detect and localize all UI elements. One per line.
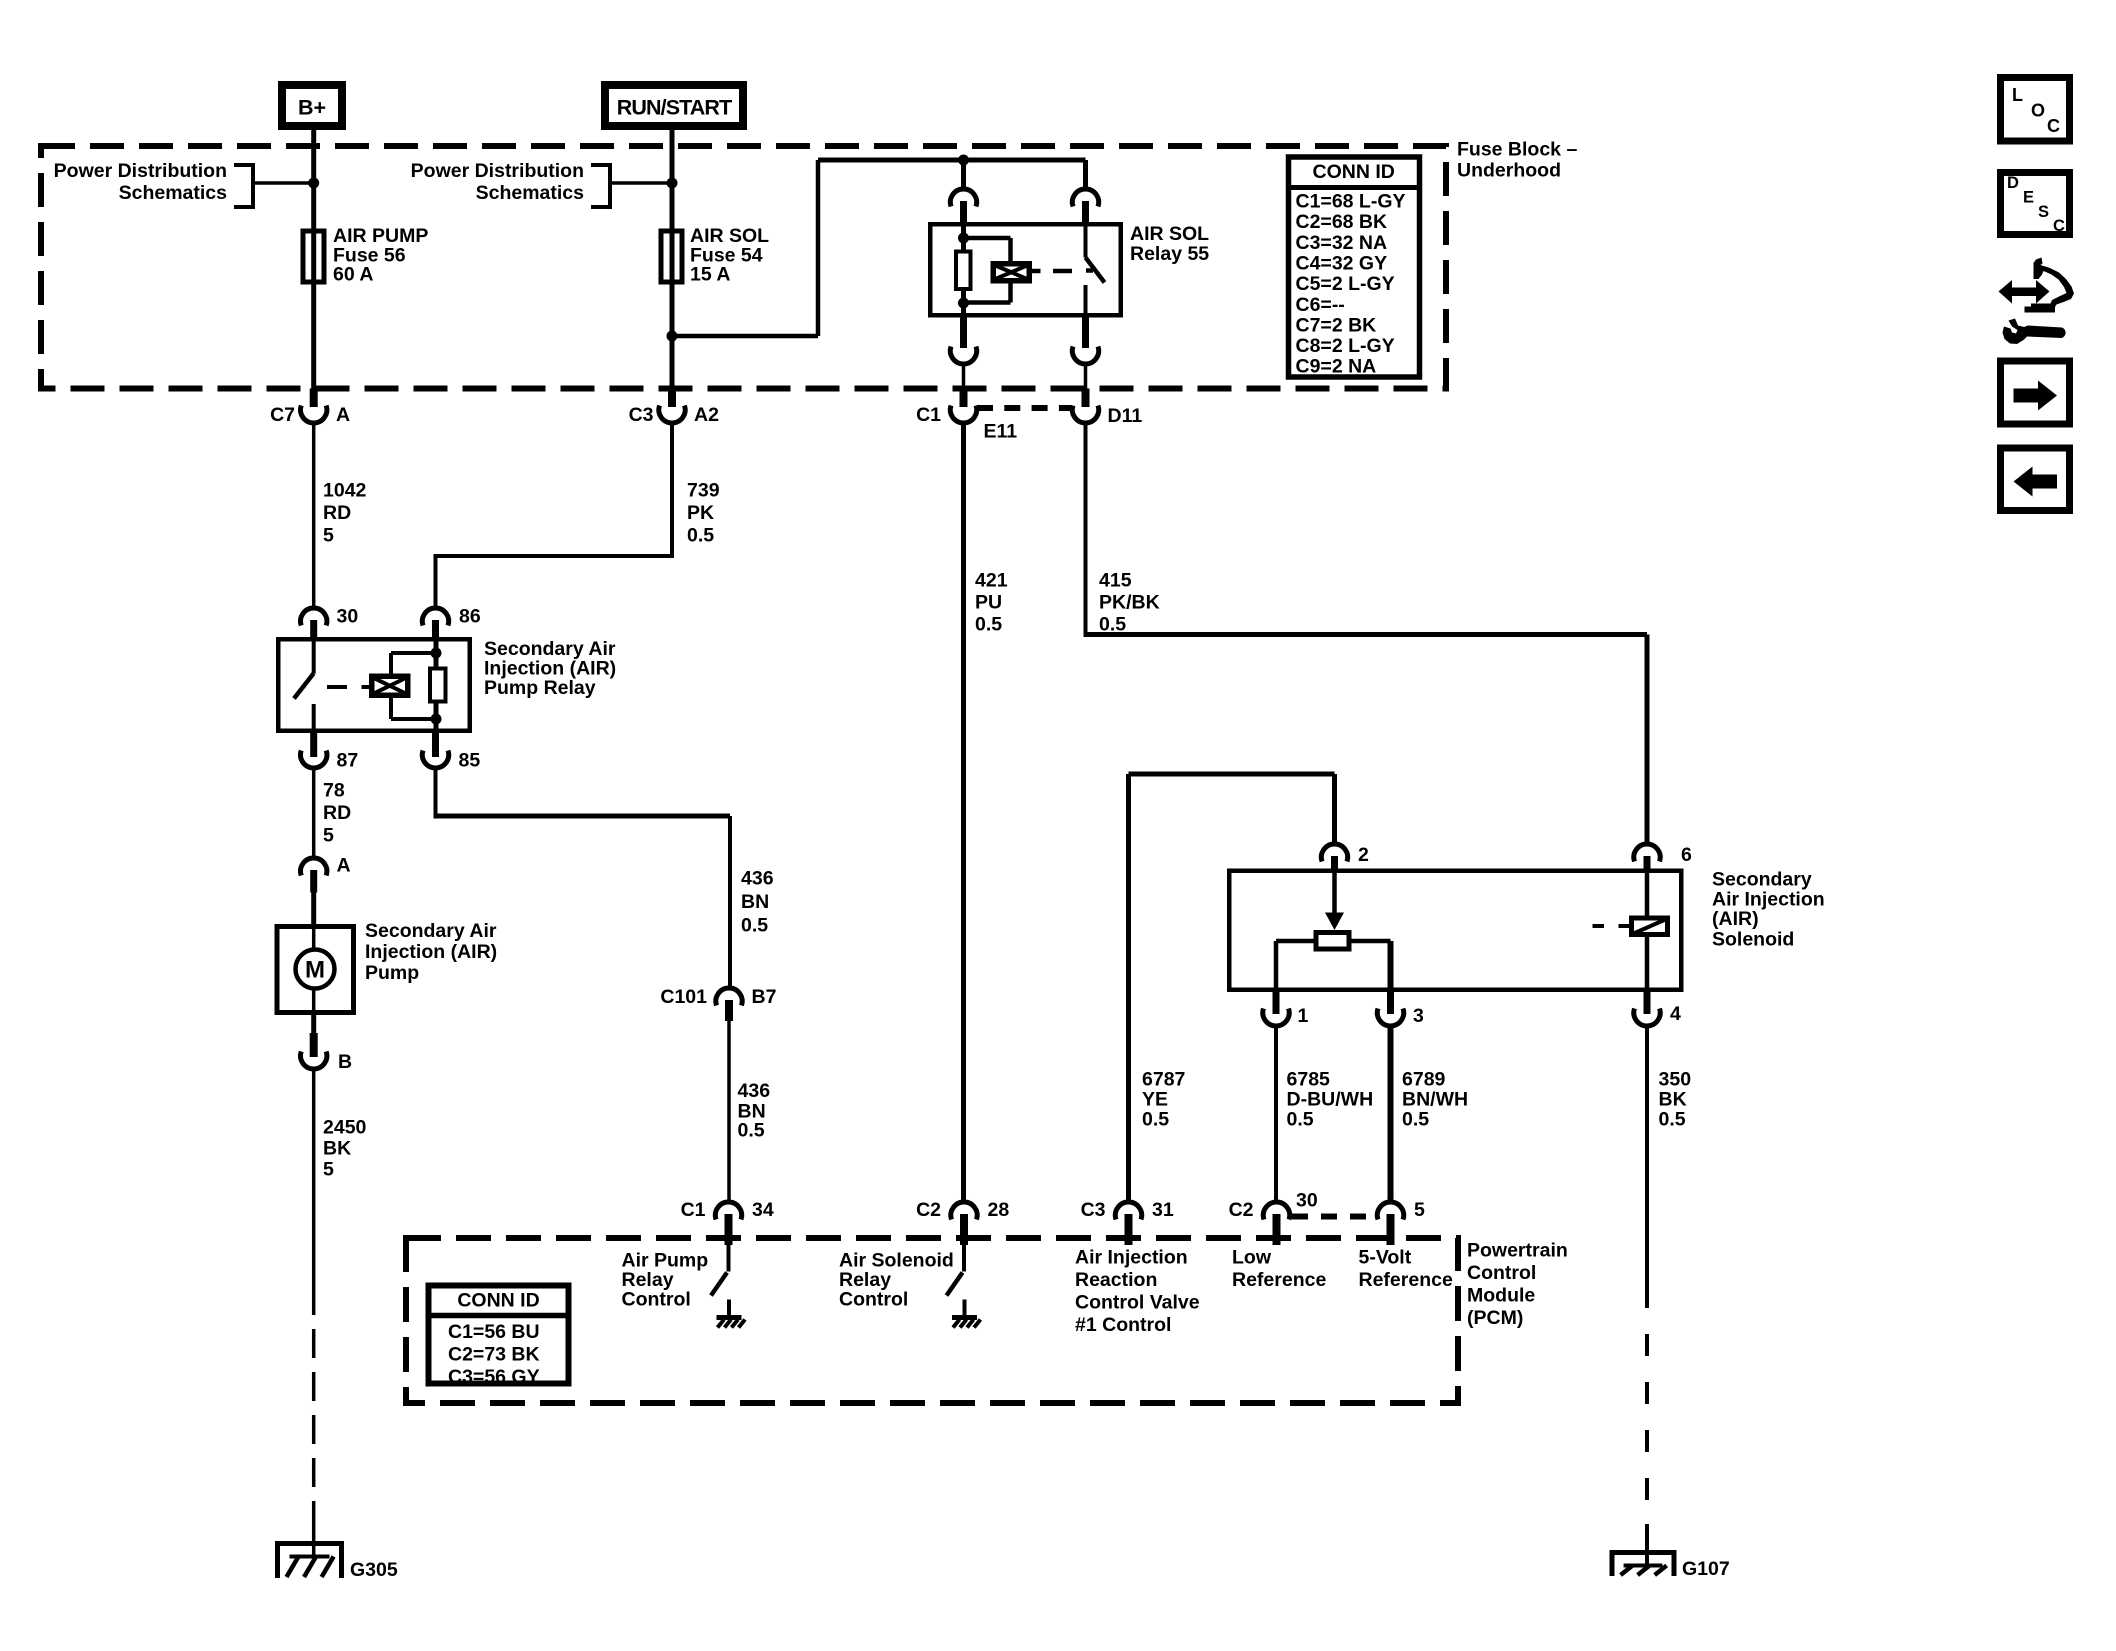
svg-text:AIR SOL: AIR SOL [1130, 223, 1209, 245]
svg-text:436: 436 [741, 868, 774, 890]
svg-text:739: 739 [687, 480, 720, 502]
svg-text:0.5: 0.5 [975, 614, 1002, 636]
svg-text:C2=68 BK: C2=68 BK [1296, 211, 1388, 233]
svg-text:Injection (AIR): Injection (AIR) [365, 941, 497, 963]
svg-text:Pump: Pump [365, 962, 419, 984]
svg-text:#1 Control: #1 Control [1075, 1314, 1171, 1336]
svg-text:1: 1 [1298, 1005, 1309, 1027]
svg-text:31: 31 [1152, 1199, 1174, 1221]
svg-text:A: A [337, 855, 351, 877]
svg-text:5: 5 [1414, 1199, 1425, 1221]
svg-text:Reaction: Reaction [1075, 1269, 1157, 1291]
svg-text:E11: E11 [984, 421, 1018, 443]
svg-text:RUN/START: RUN/START [617, 96, 732, 120]
svg-text:C7: C7 [270, 404, 295, 426]
svg-text:60 A: 60 A [333, 264, 373, 286]
svg-text:PK: PK [687, 502, 714, 524]
svg-text:5: 5 [323, 825, 334, 847]
svg-text:30: 30 [1296, 1190, 1318, 1212]
svg-text:Module: Module [1467, 1285, 1535, 1307]
svg-text:O: O [2031, 101, 2045, 121]
svg-text:C1: C1 [681, 1199, 706, 1221]
svg-text:C1=56 BU: C1=56 BU [448, 1321, 540, 1343]
svg-text:2450: 2450 [323, 1117, 367, 1139]
svg-text:Power Distribution: Power Distribution [54, 160, 227, 182]
svg-text:1042: 1042 [323, 480, 367, 502]
svg-text:RD: RD [323, 802, 351, 824]
svg-text:Air Injection: Air Injection [1075, 1247, 1188, 1269]
svg-text:0.5: 0.5 [1659, 1109, 1686, 1131]
svg-text:C3: C3 [629, 404, 654, 426]
svg-text:0.5: 0.5 [1287, 1109, 1314, 1131]
svg-text:Power Distribution: Power Distribution [411, 160, 584, 182]
svg-text:C8=2 L-GY: C8=2 L-GY [1296, 335, 1395, 357]
svg-text:5-Volt: 5-Volt [1359, 1247, 1412, 1269]
svg-text:B7: B7 [752, 986, 777, 1008]
svg-text:Secondary Air: Secondary Air [365, 920, 497, 942]
svg-text:0.5: 0.5 [1142, 1109, 1169, 1131]
svg-text:C9=2 NA: C9=2 NA [1296, 356, 1377, 378]
svg-text:Powertrain: Powertrain [1467, 1240, 1568, 1262]
svg-text:PU: PU [975, 592, 1002, 614]
svg-text:C101: C101 [660, 986, 707, 1008]
svg-text:6789: 6789 [1402, 1069, 1446, 1091]
svg-text:28: 28 [988, 1199, 1010, 1221]
svg-text:34: 34 [752, 1199, 774, 1221]
svg-text:C: C [2053, 217, 2065, 235]
svg-text:CONN ID: CONN ID [1313, 161, 1395, 183]
svg-text:6787: 6787 [1142, 1069, 1185, 1091]
svg-text:Underhood: Underhood [1457, 160, 1561, 182]
svg-text:B: B [338, 1051, 352, 1073]
svg-text:BK: BK [1659, 1089, 1687, 1111]
svg-text:(PCM): (PCM) [1467, 1307, 1523, 1329]
svg-text:A: A [336, 404, 350, 426]
svg-text:G107: G107 [1682, 1558, 1730, 1580]
svg-text:PK/BK: PK/BK [1099, 592, 1160, 614]
svg-text:C3=56 GY: C3=56 GY [448, 1366, 540, 1388]
svg-text:Reference: Reference [1359, 1269, 1453, 1291]
svg-text:5: 5 [323, 525, 334, 547]
svg-text:C7=2 BK: C7=2 BK [1296, 314, 1377, 336]
svg-text:6785: 6785 [1287, 1069, 1331, 1091]
svg-text:6: 6 [1681, 844, 1692, 866]
svg-text:C: C [2047, 116, 2060, 136]
svg-text:C5=2 L-GY: C5=2 L-GY [1296, 273, 1395, 295]
svg-text:Relay 55: Relay 55 [1130, 243, 1209, 265]
svg-text:30: 30 [337, 606, 359, 628]
svg-text:D-BU/WH: D-BU/WH [1287, 1089, 1374, 1111]
svg-text:86: 86 [459, 606, 481, 628]
svg-text:C3=32 NA: C3=32 NA [1296, 232, 1388, 254]
svg-text:Control: Control [839, 1289, 908, 1311]
svg-text:0.5: 0.5 [741, 915, 768, 937]
svg-text:78: 78 [323, 780, 345, 802]
svg-text:BN: BN [741, 891, 769, 913]
svg-text:85: 85 [459, 750, 481, 772]
svg-text:CONN ID: CONN ID [457, 1290, 539, 1312]
svg-text:YE: YE [1142, 1089, 1168, 1111]
svg-text:D11: D11 [1108, 405, 1143, 427]
svg-text:Schematics: Schematics [119, 182, 228, 204]
svg-text:5: 5 [323, 1159, 334, 1181]
svg-text:C1=68 L-GY: C1=68 L-GY [1296, 191, 1406, 213]
svg-text:C6=--: C6=-- [1296, 294, 1345, 316]
svg-text:E: E [2023, 189, 2034, 207]
svg-text:Pump Relay: Pump Relay [484, 677, 596, 699]
svg-text:Solenoid: Solenoid [1712, 929, 1794, 951]
svg-text:87: 87 [337, 750, 359, 772]
svg-text:(AIR): (AIR) [1712, 908, 1759, 930]
svg-text:415: 415 [1099, 570, 1132, 592]
svg-text:RD: RD [323, 502, 351, 524]
svg-text:2: 2 [1358, 844, 1369, 866]
svg-text:S: S [2038, 203, 2049, 221]
svg-text:Reference: Reference [1232, 1269, 1326, 1291]
svg-text:436: 436 [738, 1080, 771, 1102]
svg-text:C1: C1 [916, 404, 941, 426]
svg-text:BN/WH: BN/WH [1402, 1089, 1468, 1111]
svg-text:C3: C3 [1081, 1199, 1106, 1221]
svg-text:Low: Low [1232, 1247, 1272, 1269]
svg-text:3: 3 [1413, 1005, 1424, 1027]
svg-text:C2: C2 [916, 1199, 941, 1221]
svg-text:C2: C2 [1229, 1199, 1254, 1221]
svg-text:A2: A2 [694, 404, 719, 426]
svg-text:G305: G305 [350, 1559, 398, 1581]
svg-text:M: M [305, 957, 325, 984]
svg-text:Fuse Block –: Fuse Block – [1457, 139, 1577, 161]
svg-text:0.5: 0.5 [687, 525, 714, 547]
svg-text:C4=32 GY: C4=32 GY [1296, 252, 1388, 274]
svg-text:Schematics: Schematics [476, 182, 585, 204]
svg-text:L: L [2012, 85, 2023, 105]
svg-text:D: D [2007, 174, 2019, 192]
svg-text:0.5: 0.5 [1402, 1109, 1429, 1131]
svg-text:BK: BK [323, 1138, 351, 1160]
svg-text:350: 350 [1659, 1069, 1692, 1091]
svg-text:4: 4 [1670, 1003, 1681, 1025]
svg-text:Secondary: Secondary [1712, 869, 1812, 891]
svg-text:B+: B+ [298, 96, 326, 120]
svg-text:15 A: 15 A [690, 264, 730, 286]
svg-text:Control: Control [1467, 1262, 1536, 1284]
svg-text:0.5: 0.5 [738, 1120, 765, 1142]
svg-text:Control: Control [622, 1289, 691, 1311]
svg-text:421: 421 [975, 570, 1008, 592]
svg-text:C2=73 BK: C2=73 BK [448, 1344, 540, 1366]
svg-text:Control Valve: Control Valve [1075, 1292, 1200, 1314]
